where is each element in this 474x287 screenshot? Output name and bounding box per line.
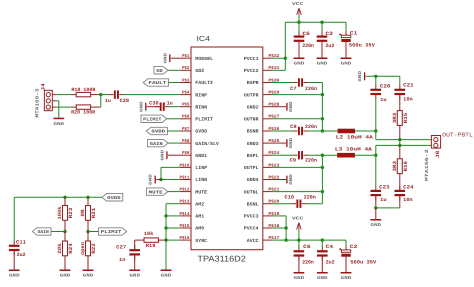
capacitor C5 220n (294, 31, 314, 58)
svg-text:MODSEL: MODSEL (195, 56, 213, 62)
svg-text:C24: C24 (403, 185, 414, 191)
wire AVCC pins to rail (272, 216, 287, 240)
svg-text:GVDD: GVDD (195, 129, 207, 135)
node VCC C3 (320, 21, 323, 24)
ground at C4 (317, 272, 328, 274)
node OUTPL junction (321, 166, 324, 169)
resistor R22 open (80, 232, 97, 270)
capacitor C27 1n (116, 245, 140, 263)
svg-text:P$13: P$13 (180, 199, 190, 205)
svg-text:MUTE: MUTE (149, 190, 163, 195)
svg-text:1n: 1n (119, 257, 126, 263)
ground for AM pins (161, 270, 172, 272)
capacitor C3 2u2 (317, 31, 335, 58)
svg-text:GND: GND (289, 137, 294, 148)
svg-text:FAULTZ: FAULTZ (195, 80, 213, 86)
node R21 top (86, 196, 89, 199)
capacitor C21 10n (395, 83, 414, 111)
net flag GVDD at pin P$7 (146, 127, 180, 134)
wire OUTNL pin P$21 (272, 191, 323, 193)
svg-text:GND: GND (341, 62, 352, 67)
svg-text:BSNL: BSNL (247, 201, 259, 207)
resistor R21 0R (80, 197, 97, 231)
svg-text:SDZ: SDZ (195, 68, 204, 74)
svg-text:3R3: 3R3 (392, 161, 398, 172)
capacitor C1 560u 35V polarized (339, 30, 375, 57)
svg-text:R23: R23 (68, 208, 74, 219)
ground at C11 (9, 250, 20, 278)
capacitor C11 2u2 (9, 239, 26, 258)
svg-text:GND: GND (9, 274, 20, 279)
node VCC C4 (321, 238, 324, 241)
svg-text:C6: C6 (303, 244, 311, 250)
svg-text:P$4: P$4 (182, 90, 190, 96)
wire node to C28 (101, 94, 110, 96)
svg-text:PVCC2: PVCC2 (244, 68, 259, 74)
svg-text:GVDD: GVDD (151, 130, 165, 135)
wire L3 to filter node (355, 154, 376, 156)
node PVCC4 junction (284, 226, 287, 229)
ground at pin P$25 GND3 (272, 137, 295, 148)
svg-text:GND: GND (160, 149, 165, 160)
svg-text:1u: 1u (167, 100, 173, 106)
svg-text:BSPR: BSPR (247, 80, 259, 86)
svg-text:J8: J8 (435, 151, 441, 159)
svg-text:P$16: P$16 (180, 235, 190, 241)
wire VCC rail bottom (286, 240, 346, 246)
wire output line 1 to J8 (376, 131, 432, 140)
svg-text:R20 100R: R20 100R (71, 109, 95, 115)
svg-text:GND: GND (163, 52, 168, 63)
node L2 filter junction (374, 129, 377, 132)
svg-text:GND: GND (294, 62, 305, 67)
net flag MUTE at pin P$12 (146, 188, 180, 195)
svg-text:MTA156-2: MTA156-2 (424, 149, 430, 181)
svg-text:VCC: VCC (292, 216, 304, 221)
node SYNC junction (164, 238, 167, 241)
ground at pin P$9 GND1 (160, 149, 180, 160)
svg-text:GND: GND (317, 62, 328, 67)
svg-text:VCC: VCC (292, 2, 304, 7)
svg-text:C11: C11 (16, 239, 26, 245)
wire OUTNR pin P$27 (272, 118, 323, 120)
ground at pin P$28 GND2 (272, 101, 295, 112)
wire BSPL pin P$24 (272, 154, 294, 156)
svg-text:C4: C4 (326, 244, 334, 250)
svg-text:C5: C5 (302, 31, 310, 37)
svg-text:GND: GND (371, 223, 382, 228)
wire L2 to filter node (355, 130, 376, 132)
svg-text:AM1: AM1 (195, 214, 204, 220)
ground at C6 (294, 272, 305, 274)
svg-text:AM0: AM0 (195, 226, 204, 232)
svg-text:R15: R15 (403, 113, 409, 124)
svg-text:PLIMIT: PLIMIT (101, 230, 122, 235)
svg-text:OUTPL: OUTPL (244, 165, 259, 171)
capacitor C28 1u (105, 90, 129, 103)
svg-text:PVCC1: PVCC1 (244, 56, 259, 62)
wire pin P$10 LINP (161, 167, 180, 179)
svg-text:2u2: 2u2 (326, 260, 335, 266)
svg-text:220n: 220n (302, 43, 314, 49)
svg-text:10n: 10n (403, 197, 413, 203)
capacitor C9 220n bootstrap (290, 151, 317, 164)
svg-text:P$9: P$9 (182, 150, 190, 156)
svg-text:10k: 10k (144, 231, 154, 237)
svg-text:R22: R22 (91, 243, 97, 254)
wire R20 up to RINP node (100, 95, 102, 108)
ground at C23 C24 (370, 208, 381, 228)
wire J4 pin1 to R18 (56, 94, 71, 96)
svg-text:L2 10uH 4A: L2 10uH 4A (336, 135, 373, 141)
svg-text:P$6: P$6 (182, 114, 190, 120)
svg-text:560u 35V: 560u 35V (350, 260, 376, 266)
ground at C3 (317, 58, 328, 60)
connector J4 MTA100-3 input (35, 83, 57, 117)
wire snubber ground (376, 207, 400, 209)
net flag PLIMIT source (88, 228, 127, 235)
svg-text:OUT-PBTL: OUT-PBTL (442, 131, 473, 138)
ground at R22 (83, 270, 94, 272)
node gnd C20 (374, 75, 377, 78)
ground at C1 (341, 58, 352, 60)
svg-text:GND3: GND3 (247, 141, 259, 147)
svg-text:1u: 1u (380, 97, 387, 103)
inductor L3 10uH 4A (335, 146, 372, 157)
svg-text:OUTNR: OUTNR (244, 117, 259, 123)
ground at C2 (341, 272, 352, 274)
wire OUTPR pin P$29 (272, 94, 323, 96)
svg-text:OUTPR: OUTPR (244, 92, 259, 98)
svg-text:GND: GND (129, 274, 140, 279)
wire R19 to C27 (134, 240, 136, 250)
svg-text:0R: 0R (80, 210, 86, 217)
net flag GVDD source (102, 194, 123, 201)
svg-text:C3: C3 (325, 31, 333, 37)
node R23 top (63, 196, 66, 199)
svg-text:OUTNL: OUTNL (244, 189, 259, 195)
IC IC4 TPA3116D2 class-D amplifier body (191, 47, 263, 250)
inductor L2 10uH 4A (336, 129, 373, 141)
svg-text:2u2: 2u2 (325, 43, 334, 49)
svg-text:C28: C28 (120, 98, 130, 104)
svg-text:C30: C30 (149, 100, 159, 106)
svg-text:GND: GND (161, 274, 172, 279)
svg-text:P$15: P$15 (180, 223, 190, 229)
wire VCC rail top (285, 22, 346, 70)
ground at R24 (60, 270, 71, 272)
svg-text:open: open (80, 242, 86, 255)
resistor R15 3R3 (392, 111, 409, 140)
svg-text:560u 35V: 560u 35V (349, 42, 375, 48)
node LINN junction (159, 178, 162, 181)
node PVCC1 junction (284, 57, 287, 60)
svg-text:LINP: LINP (195, 165, 207, 171)
wire pin P$16 SYNC (166, 239, 180, 241)
svg-text:GND: GND (54, 122, 65, 127)
svg-text:GND: GND (317, 276, 328, 281)
ground rail top right (358, 70, 400, 84)
net flag PLIMIT at pin P$6 (141, 115, 180, 122)
svg-text:L3 10uH 4A: L3 10uH 4A (335, 146, 372, 152)
svg-text:1u: 1u (105, 98, 111, 104)
wire BSNR pin P$26 (272, 130, 294, 132)
svg-text:GND1: GND1 (195, 153, 207, 159)
svg-text:GAIN/SLV: GAIN/SLV (195, 141, 219, 147)
svg-text:220n: 220n (305, 158, 317, 164)
wire pin P$14 AM1 (166, 215, 180, 217)
svg-text:220n: 220n (302, 260, 314, 266)
svg-text:10n: 10n (403, 97, 413, 103)
svg-text:P$8: P$8 (182, 138, 190, 144)
svg-text:BSNR: BSNR (247, 129, 259, 135)
svg-text:PVCC3: PVCC3 (244, 214, 259, 220)
node OUTPR junction (321, 93, 324, 96)
svg-text:R19: R19 (146, 243, 156, 249)
svg-text:AVCC: AVCC (247, 238, 259, 244)
svg-text:P$11: P$11 (180, 174, 190, 180)
IC4 pins P$1-P$32: stubs, pin number labels and pin names (180, 53, 280, 244)
node snubber gnd junction (374, 206, 377, 209)
node RINP junction (99, 93, 102, 96)
node VCC C6 (297, 238, 300, 241)
capacitor C23 1u (371, 155, 390, 208)
svg-text:SD: SD (156, 69, 163, 74)
capacitor C7 220n bootstrap (290, 78, 317, 92)
svg-text:GND: GND (139, 101, 144, 112)
resistor R16 3R3 (392, 145, 409, 190)
svg-text:220n: 220n (304, 194, 316, 200)
wire vertical left out (321, 155, 323, 204)
node VCC C5 (297, 21, 300, 24)
svg-text:C9: C9 (290, 158, 297, 164)
net flag SD at pin P$2 (154, 67, 180, 74)
capacitor C10 220n bootstrap (285, 194, 316, 208)
svg-text:GND: GND (358, 70, 363, 81)
svg-text:C8: C8 (290, 124, 297, 130)
capacitor C2 560u 35V polarized (339, 244, 376, 272)
svg-text:C27: C27 (116, 245, 126, 251)
svg-text:GND: GND (289, 101, 294, 112)
svg-text:GND: GND (60, 274, 71, 279)
svg-text:MUTE: MUTE (195, 189, 207, 195)
wire BSNL pin P$20 (272, 203, 292, 205)
svg-text:GAIN: GAIN (38, 230, 50, 235)
ground at C30 (145, 103, 146, 111)
svg-text:C23: C23 (379, 185, 390, 191)
svg-text:C2: C2 (350, 244, 358, 250)
svg-text:AM2: AM2 (195, 201, 204, 207)
svg-text:P$1: P$1 (182, 53, 190, 59)
capacitor C4 2u2 (317, 244, 335, 272)
ground at connector J4 pin 2 (53, 101, 64, 127)
svg-text:P$2: P$2 (182, 65, 190, 71)
node snubber R15 junction (398, 138, 401, 141)
node OUTNR junction (321, 117, 324, 120)
wire C9 to node (308, 154, 338, 156)
node OUT right junction (321, 129, 324, 132)
svg-text:J4: J4 (40, 83, 46, 91)
resistor R18 100R (71, 87, 101, 97)
svg-text:C10: C10 (285, 194, 295, 200)
node OUTNL junction (321, 190, 324, 193)
power VCC bottom (292, 216, 304, 240)
wire J4 pin3 to R20 (56, 106, 71, 108)
wire BSPR pin P$30 (272, 82, 294, 84)
svg-text:PVCC4: PVCC4 (244, 226, 259, 232)
svg-text:PLIMIT: PLIMIT (195, 117, 213, 123)
wire C7 to OUTPR node (308, 83, 323, 132)
svg-text:R18 100R: R18 100R (71, 87, 95, 93)
node GAIN tap (63, 230, 66, 233)
svg-text:R21: R21 (91, 208, 97, 219)
resistor R24 20k (57, 232, 74, 270)
node OUT left junction (321, 154, 324, 157)
wire output line 2 to J8 (376, 145, 432, 155)
connector J8 MTA156-2 output (424, 136, 441, 182)
capacitor C8 220n bootstrap (290, 124, 317, 135)
svg-text:GND4: GND4 (247, 177, 259, 183)
net flag GAIN source (32, 228, 65, 235)
wire OUTPL pin P$23 (272, 166, 323, 168)
svg-text:IC4: IC4 (197, 34, 211, 43)
node AM0 junction (164, 226, 167, 229)
ground at C5 (294, 58, 305, 60)
wire C8 to node (308, 130, 338, 132)
svg-text:GND2: GND2 (247, 104, 259, 110)
svg-text:PLIMIT: PLIMIT (143, 118, 162, 123)
svg-text:2u2: 2u2 (17, 252, 26, 258)
capacitor C6 220n (294, 244, 314, 272)
wire R15 to R16 vertical (399, 140, 401, 146)
net flag GAIN at pin P$8 (148, 139, 180, 146)
node AM1 junction (164, 214, 167, 217)
node snubber R16 junction (398, 144, 401, 147)
svg-text:220n: 220n (305, 86, 317, 92)
svg-text:C21: C21 (403, 83, 414, 89)
svg-text:20k: 20k (57, 243, 63, 254)
svg-text:GVDD: GVDD (107, 196, 121, 201)
node L3 filter junction (374, 154, 377, 157)
resistor R20 100R (71, 105, 101, 116)
wire pin P$15 AM0 (166, 227, 180, 229)
svg-text:1u: 1u (380, 197, 387, 203)
node AVCC junction (284, 238, 287, 241)
svg-text:R24: R24 (68, 243, 74, 254)
svg-text:MTA100-3: MTA100-3 (35, 88, 41, 117)
wire pin P$13 AM2 down (166, 204, 180, 270)
svg-text:LINN: LINN (195, 177, 207, 183)
wire C10 to node (306, 203, 322, 205)
capacitor C30 1u at pin P$5 RINN (147, 100, 180, 111)
svg-text:P$14: P$14 (180, 211, 190, 217)
svg-text:GND: GND (294, 276, 305, 281)
ground at C27 (129, 255, 140, 279)
svg-text:RINP: RINP (195, 92, 207, 98)
svg-text:P$10: P$10 (180, 162, 190, 168)
svg-text:C1: C1 (350, 30, 358, 36)
svg-text:TPA3116D2: TPA3116D2 (197, 254, 246, 264)
svg-text:P$12: P$12 (180, 187, 190, 193)
resistor R23 100k (57, 197, 74, 231)
svg-text:P$3: P$3 (182, 77, 190, 83)
ground at pin P$11 LINN (149, 174, 180, 185)
svg-text:GAIN: GAIN (150, 142, 163, 147)
svg-text:P$7: P$7 (182, 126, 190, 132)
svg-text:3R3: 3R3 (392, 113, 398, 124)
svg-text:GND: GND (341, 276, 352, 281)
svg-text:100k: 100k (57, 207, 63, 220)
node PLIMIT tap (86, 230, 89, 233)
wire GVDD rail (14, 197, 102, 241)
resistor R19 10k (135, 231, 166, 249)
svg-text:RINN: RINN (195, 104, 207, 110)
power VCC top (292, 2, 304, 22)
svg-text:GND: GND (83, 274, 94, 279)
svg-text:GND: GND (149, 174, 154, 185)
ground at pin P$1 MODSEL (163, 52, 180, 63)
svg-text:C20: C20 (380, 83, 391, 89)
svg-text:C7: C7 (290, 86, 297, 92)
svg-text:220n: 220n (305, 124, 317, 130)
svg-text:FAULT: FAULT (148, 81, 166, 86)
net flag FAULT at pin P$3 (143, 79, 180, 86)
ground at pin P$22 GND4 (272, 174, 295, 185)
svg-text:GND: GND (289, 174, 294, 185)
svg-text:R16: R16 (403, 161, 409, 172)
capacitor C20 1u (371, 83, 391, 131)
wire C28 to pin P$4 RINP (124, 94, 181, 96)
svg-text:BSPL: BSPL (247, 153, 259, 159)
svg-text:P$5: P$5 (182, 102, 190, 108)
capacitor C24 10n (395, 185, 414, 208)
svg-text:SYNC: SYNC (195, 238, 207, 244)
wire PVCC pins to rail (272, 58, 286, 70)
